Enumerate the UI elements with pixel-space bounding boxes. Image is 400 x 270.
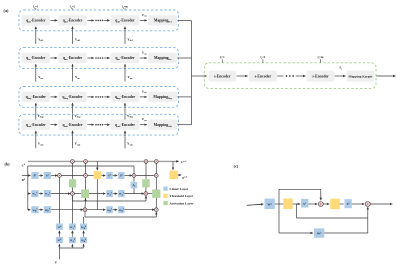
linear S2c block <box>345 199 352 208</box>
activation block greenB col146 <box>142 179 149 187</box>
column146 Cnode to greenB <box>145 163 147 179</box>
linear S1c block <box>301 199 308 208</box>
arrow after enc2 row 3 <box>87 96 94 98</box>
wire WA2b to node146 <box>125 193 144 195</box>
linear S1 block b <box>106 172 112 179</box>
dashed group box row 4 <box>19 114 179 135</box>
linear S2 block b <box>118 172 124 179</box>
row1 input arrow <box>22 175 31 177</box>
threshold block yellow1c <box>283 199 292 210</box>
wire W1 to yellow1c <box>275 203 284 205</box>
Y input arrow row 2 <box>124 64 126 81</box>
arrow yellow2 to g output <box>178 174 181 176</box>
arrow WB1b-WB2b <box>113 209 118 211</box>
encoder block q_ins row 2 <box>111 53 140 63</box>
arrow s3-karger <box>335 75 346 77</box>
linear WB2 block b <box>118 206 124 213</box>
arrow lower-upper WB <box>83 231 85 237</box>
arrow input to lower W <box>58 244 60 248</box>
c mid feedback drop <box>296 204 298 218</box>
linear WB0 upper block <box>80 224 87 230</box>
mult node on C line x=156.3 <box>154 160 158 164</box>
arrow yellow1-S1b <box>101 175 105 177</box>
dashed group box row 3 <box>19 87 179 108</box>
Y input arrow row 3 <box>35 103 37 120</box>
svg-text:(a): (a) <box>4 8 9 13</box>
wire S2b to node134 <box>125 175 133 177</box>
c mid feedback across <box>297 217 368 219</box>
row3 input arrow <box>28 209 31 211</box>
activation block greenA col72 <box>69 179 76 187</box>
ellipsis dots row 4 <box>95 124 103 126</box>
c bottom feedback drop <box>278 204 280 233</box>
wire S2a to mult node <box>51 175 57 177</box>
c bottom feedback across to W2 <box>279 232 313 234</box>
svg-text:s-Encoder: s-Encoder <box>255 74 272 78</box>
mult node row1 col59 <box>58 174 62 178</box>
g path drop to node <box>133 166 135 173</box>
arrow after enc2 row 1 <box>87 19 94 21</box>
Y distribution wire <box>59 247 83 249</box>
column134 A block to row2 <box>133 188 135 193</box>
encoder block q_sub row 4 <box>111 120 140 130</box>
encoder block q_del row 1 <box>111 15 140 25</box>
mapping block row 3 <box>148 92 177 102</box>
linear WA0 upper block <box>69 224 76 230</box>
wire WA2a to node72 <box>51 193 70 195</box>
dashed group box s-chain <box>204 63 376 89</box>
mult node on C line x=85.5 <box>84 160 88 164</box>
arrow WA1a-WA2a <box>39 193 43 195</box>
arrow sum1 to yellow2c <box>323 203 329 205</box>
wire node134-node156 row1 <box>136 175 155 177</box>
arrow WB1a-WB2a <box>39 209 43 211</box>
linear WB1 block b <box>106 206 112 213</box>
Y input stem2 <box>58 248 60 259</box>
row2 input arrow <box>28 193 31 195</box>
wire mapping to bus row 2 <box>177 57 191 59</box>
encoder block q_dup row 3 <box>111 92 140 102</box>
linear WB1 block a <box>31 206 38 213</box>
wire green85-WA1b <box>89 193 105 195</box>
wire node85-yellow1 <box>87 175 93 177</box>
tick below l_q label <box>124 8 126 10</box>
wire node59-node85 row1 <box>61 175 83 177</box>
tick below l_s label <box>221 59 223 63</box>
arrow enc3-mapping row 2 <box>140 57 147 59</box>
mult node row1 col134 <box>132 174 136 178</box>
linear W0 lower block <box>56 237 63 243</box>
mult node row3 col85 <box>83 208 87 212</box>
s-encoder block 2 <box>249 71 277 82</box>
mult node on C line x=146.0 <box>144 160 148 164</box>
column85 green85 to row3 node <box>84 198 87 208</box>
c feedback riser into sum2 <box>367 207 369 233</box>
legend activation swatch <box>163 201 167 205</box>
column146 greenB to node-row2 <box>145 187 147 191</box>
wire mapping to bus row 4 <box>177 124 191 126</box>
C state line (thick) <box>28 160 179 162</box>
svg-text:(b): (b) <box>4 161 10 166</box>
column85 Cnode to row1 node <box>85 163 87 173</box>
mapping block row 1 <box>148 15 177 25</box>
Y input arrow row 2 <box>72 64 74 81</box>
encoder block q_dup row 3 <box>58 92 86 102</box>
column156 green156 to row3 node <box>155 198 157 208</box>
arrow dots-enc3 row 2 <box>104 57 109 59</box>
mult node on C line x=72.4 <box>71 160 75 164</box>
mapping block row 4 <box>148 120 177 130</box>
svg-text:Mapping Karger: Mapping Karger <box>349 74 373 78</box>
arrow lower-upper W <box>58 231 60 237</box>
svg-text:s-Encoder: s-Encoder <box>312 74 329 78</box>
linear WA1 block b <box>106 190 112 197</box>
column173 C line to yellow2 <box>172 161 174 170</box>
column72 greenA to node-row2 <box>71 187 73 191</box>
linear S1 block a <box>31 172 38 179</box>
linear WA2 block b <box>118 190 124 197</box>
arrow S1c to sum1 <box>308 203 317 205</box>
svg-text:Threshold Layer: Threshold Layer <box>170 194 194 198</box>
wire WB2b to node156 row3 <box>125 209 155 211</box>
arrow bus to s-chain <box>192 75 207 77</box>
arrow enc3-mapping row 4 <box>140 124 147 126</box>
tick below l_s label <box>320 59 322 63</box>
mult node row2 col72 <box>71 192 75 196</box>
encoder block q_del row 1 <box>22 15 51 25</box>
Y input arrow row 3 <box>124 103 126 120</box>
activation block green156 on row2 <box>152 190 160 198</box>
dashed group box row 1 <box>19 10 179 31</box>
arrow enc1-enc2 row 1 <box>50 19 57 21</box>
wire WB2a to node85 <box>51 209 83 211</box>
skip bus2 drop from node72 <box>71 196 73 202</box>
mult node row1 col85 <box>84 174 88 178</box>
output arrow s-chain <box>376 75 395 77</box>
arrow enc1-enc2 row 2 <box>50 57 57 59</box>
wire mapping to bus row 1 <box>177 19 191 21</box>
Y input arrow row 3 <box>72 103 74 120</box>
skip bus2 rise to node146 <box>145 196 147 201</box>
arrow dots-s3 <box>296 75 306 77</box>
svg-text:(c): (c) <box>234 163 239 168</box>
threshold block yellow2c <box>330 199 340 210</box>
sum node 2 <box>365 202 370 207</box>
tick below l_q label <box>72 8 74 10</box>
bus vertical right of rows <box>191 21 193 125</box>
activation block green85 on row2 <box>81 190 89 198</box>
svg-text:Linear Layer: Linear Layer <box>170 187 189 191</box>
column72 node-row2 to W stack <box>71 196 73 224</box>
mult node row1 col134 to A block <box>133 177 135 181</box>
threshold block yellow1 <box>94 171 102 179</box>
mapping karger block <box>347 71 375 82</box>
arrow S2c to sum2 <box>352 203 365 205</box>
c top feedback up <box>278 189 280 204</box>
skip bus under row2 <box>72 200 146 202</box>
sum node 1 <box>318 202 323 207</box>
column85 row3 node to skip bus <box>84 212 86 217</box>
Y input arrow row 1 <box>124 27 126 44</box>
tick below l_q label <box>35 8 37 10</box>
skip bus2 arrow into green85 <box>85 199 87 202</box>
wire after s2 <box>277 75 283 77</box>
linear W1 block <box>265 199 275 209</box>
arrow after enc2 row 4 <box>87 124 94 126</box>
arrow input to lower WA <box>71 244 73 248</box>
Y input arrow row 4 <box>124 131 126 148</box>
arrow S1a-S2a <box>39 175 43 177</box>
arrow S1b-S2b <box>113 175 118 177</box>
mult node row1 col156 <box>154 174 158 178</box>
wire mapping to bus row 3 <box>177 96 191 98</box>
skip bus3 rise to node156 <box>155 212 157 217</box>
dashed group box row 2 <box>19 48 179 69</box>
arrow enc1-enc2 row 4 <box>50 124 57 126</box>
linear WB2 block a <box>44 206 51 213</box>
arrow dots-enc3 row 4 <box>104 124 109 126</box>
wire node85-WB1b row3 <box>87 209 106 211</box>
Y input arrow row 1 <box>72 27 74 44</box>
arrow lower-upper WA <box>71 231 73 237</box>
arrow s1-s2 <box>236 75 247 77</box>
arrow enc3-mapping row 1 <box>140 19 147 21</box>
linear WA2 block a <box>44 190 51 197</box>
Y input arrow row 1 <box>35 27 37 44</box>
arrow WA1b-WA2b <box>113 193 118 195</box>
svg-text:s-Encoder: s-Encoder <box>214 74 231 78</box>
linear WA0 lower block <box>69 237 76 243</box>
column97 C line down into yellow1 top <box>96 161 98 170</box>
skip bus under row3 <box>85 216 156 218</box>
wire yellow2c to S2c <box>340 203 344 205</box>
encoder block q_ins row 2 <box>22 53 51 63</box>
ellipsis dots row 3 <box>95 96 103 98</box>
c input arrow <box>247 204 263 205</box>
wire yellow1c to S1c <box>293 203 301 205</box>
column85 row1 node to green85 <box>85 177 87 189</box>
mapping block row 2 <box>148 53 177 63</box>
g path line <box>28 165 134 167</box>
linear S2 block a <box>44 172 51 179</box>
column97 yellow1 down to row3 <box>96 179 98 209</box>
column72 Cnode to greenA <box>71 163 73 179</box>
encoder block q_dup row 3 <box>22 92 51 102</box>
threshold block yellow2 <box>170 171 178 180</box>
c bottom feedback W2 to riser <box>324 232 368 234</box>
linear W0 upper block <box>56 224 63 230</box>
legend linear swatch <box>163 187 167 191</box>
linear W2 block <box>314 228 324 237</box>
encoder block q_sub row 4 <box>58 120 86 130</box>
arrow enc3-mapping row 3 <box>140 96 147 98</box>
arrow input to lower WB <box>83 244 85 248</box>
c top feedback across <box>279 188 321 190</box>
legend threshold swatch <box>163 194 167 198</box>
s-encoder block 3 <box>307 71 335 82</box>
encoder block q_del row 1 <box>58 15 86 25</box>
Y input arrow row 2 <box>35 64 37 81</box>
svg-text:Activation Layer: Activation Layer <box>170 201 194 205</box>
Y input arrow row 4 <box>35 131 37 148</box>
mult node row2 col146 <box>144 192 148 196</box>
W B column up from stack <box>83 217 85 224</box>
column156 row1 node to green156 <box>155 177 157 189</box>
ellipsis dots s-chain <box>286 75 294 77</box>
column156 Cnode to row1 node <box>155 163 157 173</box>
ellipsis dots row 1 <box>95 20 103 22</box>
arrow enc1-enc2 row 3 <box>50 96 57 98</box>
left input bus <box>27 166 29 210</box>
s-encoder block 1 <box>209 71 237 82</box>
arrow after enc2 row 2 <box>87 57 94 59</box>
linear WB0 lower block <box>80 237 87 243</box>
wire node146-green156 <box>148 193 153 195</box>
c output arrow <box>370 203 392 205</box>
arrow dots-enc3 row 3 <box>104 96 109 98</box>
wire node72-green85 <box>74 193 81 195</box>
mult node row3 col156 <box>154 208 158 212</box>
column59 node-row1 to W stack <box>58 177 60 223</box>
linear A block <box>131 182 138 189</box>
linear WA1 block a <box>31 190 38 197</box>
encoder block q_ins row 2 <box>58 53 86 63</box>
ellipsis dots row 2 <box>95 57 103 59</box>
arrow dots-enc3 row 1 <box>104 19 109 21</box>
tick below l_s label <box>262 59 264 63</box>
c top feedback down into sum1 <box>320 189 322 200</box>
encoder block q_sub row 4 <box>22 120 51 130</box>
Y input arrow row 4 <box>72 131 74 148</box>
